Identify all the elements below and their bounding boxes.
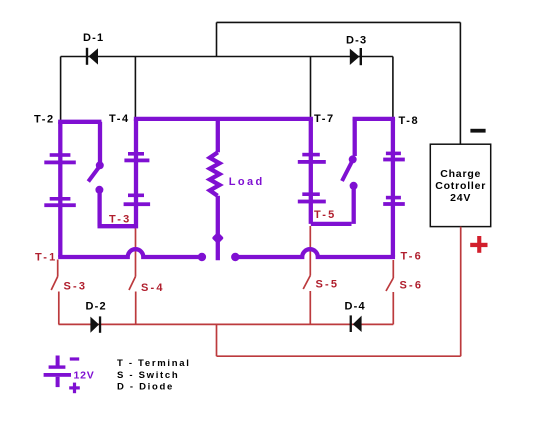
- battery minus mark: [70, 357, 79, 360]
- switch S-6: [386, 260, 393, 324]
- switch S-5 red riser (passes under purple hop): [303, 226, 310, 324]
- svg-text:T-3: T-3: [109, 214, 132, 226]
- minus terminal of charge controller: [470, 129, 485, 133]
- switch (left cell changeover) hanging from bus: [88, 122, 136, 226]
- node T-8 / battery string column: [391, 119, 395, 257]
- svg-text:S-3: S-3: [64, 281, 88, 293]
- resistor load R1 (zigzag): [210, 152, 220, 196]
- svg-text:T-4: T-4: [109, 113, 130, 125]
- node T-2 / battery string column (two cells): [58, 122, 62, 257]
- switch (right cell changeover) hanging from bus: [311, 119, 355, 224]
- wire: black drop to T-8: [392, 57, 394, 118]
- junction dot: bus right contact of center switch: [231, 253, 239, 261]
- wire: load tap from top bus down: [216, 119, 220, 152]
- wire: purple top bus right cell (switch stub to T-8): [355, 119, 393, 121]
- svg-text:T-7: T-7: [314, 113, 335, 125]
- wire: red bottom bus A (diode line): [59, 323, 394, 325]
- wire: top black bus 1 (controller minus feed): [217, 21, 461, 23]
- diode D-1: [86, 48, 98, 65]
- svg-text:T-6: T-6: [401, 251, 424, 263]
- switch S-3: [51, 260, 59, 325]
- svg-text:S-6: S-6: [400, 280, 424, 292]
- svg-text:Charge: Charge: [440, 168, 481, 180]
- svg-text:D-1: D-1: [83, 32, 104, 44]
- wire: black drop to T-7: [310, 57, 312, 119]
- battery B3a plates (T-7 column): [298, 153, 326, 204]
- svg-text:D-3: D-3: [346, 35, 367, 47]
- node T-7 / battery string column: [309, 119, 313, 224]
- svg-text:D-2: D-2: [86, 301, 107, 313]
- junction dot: switch bottom contact: [95, 186, 103, 194]
- svg-text:T-5: T-5: [314, 209, 337, 221]
- svg-text:D - Diode: D - Diode: [117, 381, 174, 392]
- svg-text:T-1: T-1: [35, 252, 58, 264]
- wire: top black bus 2 (diode bus): [61, 56, 393, 58]
- legend text: [117, 358, 191, 392]
- label charge controller text: [435, 168, 486, 204]
- charge controller U1 box: [430, 144, 490, 226]
- wire: red junction riser x=216.5: [216, 324, 218, 356]
- svg-text:12V: 12V: [74, 370, 95, 382]
- plus terminal of charge controller: [470, 236, 487, 253]
- wire: vertical from bus1 down to charge controller top: [459, 22, 461, 144]
- svg-text:24V: 24V: [450, 192, 471, 204]
- wire: black drop to T-2: [60, 57, 62, 121]
- node T-4 / battery string column: [134, 119, 138, 228]
- battery BT1 12V symbol: [44, 356, 80, 394]
- diode D-2: [90, 316, 101, 332]
- svg-text:T-8: T-8: [399, 115, 420, 127]
- battery B4a plates (T-8 column): [383, 152, 405, 206]
- diode D-3: [350, 48, 362, 65]
- svg-text:T-2: T-2: [34, 114, 55, 126]
- junction dot on load wire: [212, 232, 224, 244]
- battery B1a plates (T-2 column, short neg / long pos): [44, 153, 76, 207]
- svg-text:D-4: D-4: [345, 301, 366, 313]
- junction dot: bus left contact of center switch: [198, 253, 206, 261]
- diode D-4: [350, 315, 362, 332]
- wire: vertical link from bus1 down to bus2 at x=216.5: [216, 22, 218, 56]
- wire: purple top bus middle (T-4 to T-7, load tap): [136, 119, 311, 121]
- wire: purple bottom bus right half (center gap to T-6 corner, hop over S-5 riser): [237, 249, 393, 257]
- svg-text:T - Terminal: T - Terminal: [117, 358, 191, 369]
- svg-text:S-4: S-4: [141, 282, 165, 294]
- junction dot: right switch top contact: [349, 155, 357, 163]
- wire: black drop to T-4: [134, 57, 136, 119]
- svg-text:Load: Load: [229, 176, 265, 188]
- svg-text:Cotroller: Cotroller: [435, 180, 486, 192]
- battery plus mark: [69, 386, 80, 389]
- wire: red bottom bus B: [217, 355, 461, 357]
- wire: purple bottom bus left half (T-1 corner to center gap, hop over S-4 riser): [60, 249, 200, 257]
- svg-text:S - Switch: S - Switch: [117, 370, 179, 381]
- switch S-4 red riser (passes under purple hop): [129, 228, 136, 324]
- junction dot: switch top contact: [96, 161, 104, 169]
- wire: purple top bus left cell (T-2 to switch stub): [60, 122, 99, 124]
- wire: load bottom lead into center switch gap: [216, 196, 220, 260]
- svg-text:S-5: S-5: [316, 279, 340, 291]
- junction dot: right switch bottom contact: [350, 182, 358, 190]
- battery B2a plates (T-4 column): [124, 152, 151, 206]
- wire: red from controller bottom down: [460, 227, 462, 357]
